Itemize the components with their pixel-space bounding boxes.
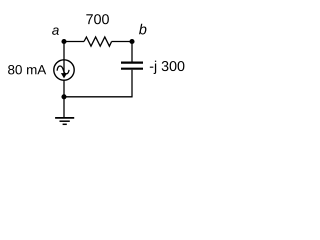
label node b bbox=[139, 24, 146, 35]
wire top left (node a to resistor) bbox=[64, 41, 84, 43]
node b junction dot bbox=[129, 39, 134, 44]
label 700 bbox=[86, 14, 109, 24]
current source arrow shaft bbox=[63, 60, 65, 74]
current source arrowhead bbox=[61, 73, 67, 78]
label -j 300 bbox=[150, 61, 185, 74]
wire right branch upper bbox=[131, 42, 133, 62]
wire left branch upper bbox=[63, 42, 65, 61]
capacitor C top plate bbox=[121, 61, 143, 63]
label 80 mA bbox=[8, 65, 46, 74]
wire top right (resistor to node b) bbox=[112, 41, 132, 43]
bottom wire bbox=[64, 96, 132, 98]
resistor R 700 bbox=[84, 37, 112, 46]
capacitor C bottom plate bbox=[121, 68, 143, 70]
label node a bbox=[52, 27, 59, 34]
ground bar 2 bbox=[60, 120, 70, 122]
ground bar 1 bbox=[55, 117, 74, 119]
wire left branch lower bbox=[63, 80, 65, 97]
current source sine wave bbox=[57, 66, 69, 74]
node a junction dot bbox=[61, 39, 66, 44]
bottom junction dot bbox=[61, 94, 66, 99]
ground bar 3 bbox=[63, 123, 67, 125]
wire right branch lower bbox=[131, 70, 133, 98]
current source I1 circle bbox=[54, 60, 74, 80]
ground stem bbox=[63, 97, 65, 118]
